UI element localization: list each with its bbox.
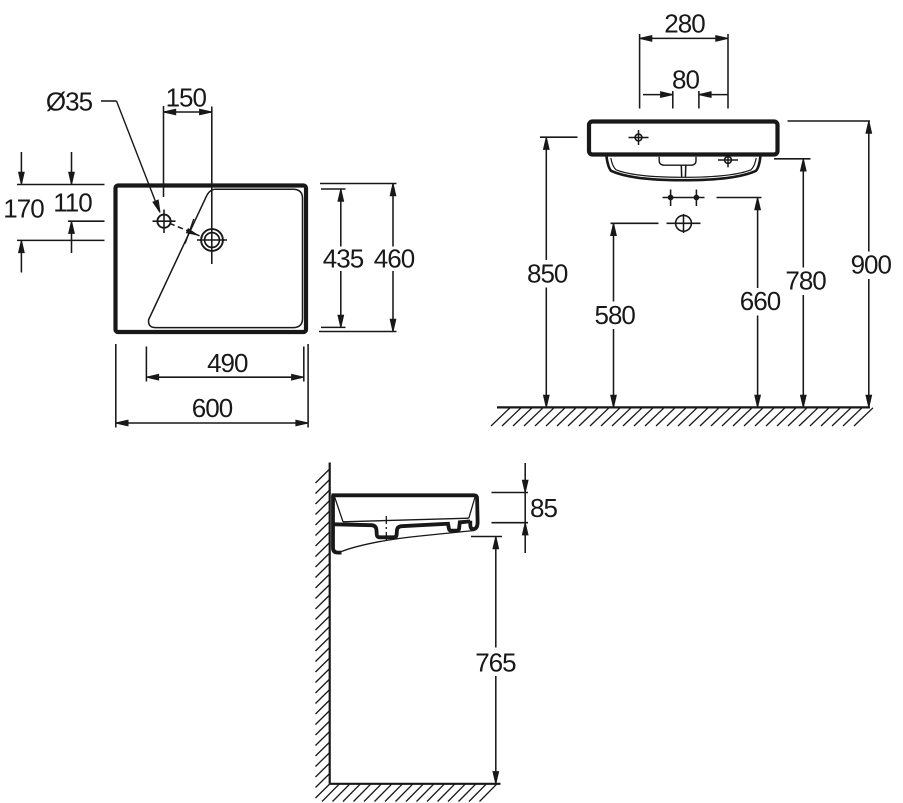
front view: siphon hole circle with crosshair [667, 214, 701, 233]
plan view: faucet hole crosshair [153, 210, 176, 234]
side view: under-basin curve from foot [342, 531, 475, 552]
dimension 435 line with arrows [338, 189, 344, 327]
plan right chain: inner top extension line [321, 188, 346, 190]
side view: inner back wall thin line [335, 498, 343, 522]
plan bottom chain: right outer extension line [307, 344, 309, 428]
dimension 765 extension line [471, 536, 502, 538]
dimension 150 left extension line [163, 106, 165, 197]
dimension 85 top extension line [492, 492, 529, 494]
side view: drain centerline [385, 516, 387, 542]
dimension 900 extension line [788, 120, 871, 122]
svg-text:765: 765 [475, 647, 516, 677]
dimension 780 line with arrows [801, 159, 807, 408]
dimension 850 line with arrows [544, 137, 550, 407]
svg-text:80: 80 [672, 65, 699, 95]
plan view: basin outer rim (600x460) [116, 186, 307, 333]
side view: basin back wall and lower foot (thick) [333, 495, 342, 552]
dimension 600 line with arrows [116, 420, 308, 426]
plan view: drain crosshair horizontal [197, 239, 227, 241]
svg-text:150: 150 [166, 82, 207, 112]
side view: wall line [329, 463, 331, 784]
front view: bowl under rim outer outline [607, 157, 761, 181]
svg-text:460: 460 [374, 244, 415, 274]
side view: basin underside stepped profile (thick) [335, 521, 471, 537]
plan right chain: outer top extension line [320, 183, 397, 185]
side view: wall hatching [316, 469, 330, 798]
plan bottom chain: left outer extension line [115, 344, 117, 428]
plan bottom chain: left inner extension line [145, 347, 147, 382]
side view: floor line [330, 783, 501, 785]
svg-text:85: 85 [530, 493, 557, 523]
front view: rim fixing crosshair [629, 130, 649, 145]
dimension 110 arrows [69, 152, 75, 253]
svg-text:780: 780 [785, 266, 826, 296]
svg-text:280: 280 [664, 8, 705, 38]
dimension 780 extension line [774, 158, 811, 160]
plan left chain: extension line at faucet center [68, 220, 105, 222]
side view: inner front wall thin line [469, 498, 475, 519]
dimension 280 line with arrows [640, 36, 728, 42]
svg-text:170: 170 [3, 193, 44, 223]
svg-text:435: 435 [323, 244, 364, 274]
front view: bolt holes connecting line [663, 197, 705, 199]
side view: basin rim top and front edge (thick) [332, 495, 478, 529]
plan view: drain hole outer circle [201, 229, 223, 251]
dimension 85 line with outside arrows [522, 463, 528, 553]
plan left chain: extension line at drain center [17, 239, 105, 241]
svg-text:660: 660 [740, 286, 781, 316]
dimension 900 line with arrows [866, 121, 872, 407]
plan right chain: outer bottom extension line [319, 331, 397, 333]
dimension 80 line with outside arrows [643, 92, 729, 98]
dimension 580 line with arrows [611, 223, 617, 407]
plan view: drain vertical centerline / 150 right extension [211, 107, 213, 265]
dimension 170 arrows [19, 152, 25, 273]
front view: floor ground line [497, 406, 870, 408]
plan view: dashed hole-offset line with arrow [170, 223, 204, 237]
plan view: faucet hole circle [157, 215, 170, 228]
side view: floor hatching [322, 784, 497, 802]
label Ø35 leader line with arrowhead [101, 101, 160, 213]
svg-text:580: 580 [595, 300, 636, 330]
dimension 580 extension line [611, 222, 659, 224]
svg-text:110: 110 [53, 187, 92, 217]
svg-text:900: 900 [851, 250, 892, 280]
front view: right bolt hole dot [694, 190, 699, 207]
plan right chain: inner bottom extension line [321, 326, 346, 328]
front view: overflow box [659, 157, 696, 165]
dimension 280 right extension line [727, 34, 729, 109]
dimension 490 line with arrows [146, 374, 303, 380]
plan left chain: extension line at rim top [17, 184, 105, 186]
plan view: inner basin outline with diagonal left edge [149, 189, 303, 327]
front view: drain pipe lines [681, 165, 686, 177]
dimension 660 line with arrows [755, 198, 761, 408]
svg-text:490: 490 [207, 348, 248, 378]
dimension 80 extension lines [673, 91, 699, 109]
dimension 150 line with arrows [164, 109, 212, 115]
front view: floor hatching [491, 408, 873, 426]
dimension 460 line with arrows [390, 184, 396, 332]
front view: bowl fixing crosshair [718, 153, 738, 168]
front view: rim body rectangle [589, 122, 778, 155]
plan view: tick mark across dashed line [185, 219, 194, 244]
svg-text:Ø35: Ø35 [46, 87, 93, 117]
svg-text:850: 850 [527, 259, 568, 289]
dimension 765 line with arrows [493, 537, 499, 784]
svg-text:600: 600 [192, 393, 233, 423]
plan view: drain hole inner circle [205, 233, 220, 248]
front view: left bolt hole dot [668, 190, 673, 207]
plan bottom chain: right inner extension line [303, 347, 305, 382]
side view: bowl floor thin line [343, 518, 469, 522]
dimension 85 bottom extension line [492, 522, 529, 524]
dimension 660 extension line [717, 197, 762, 199]
dimension 280 left extension line [639, 34, 641, 109]
dimension 850 extension line [540, 136, 578, 138]
front view: bowl inner thin line [611, 158, 756, 177]
